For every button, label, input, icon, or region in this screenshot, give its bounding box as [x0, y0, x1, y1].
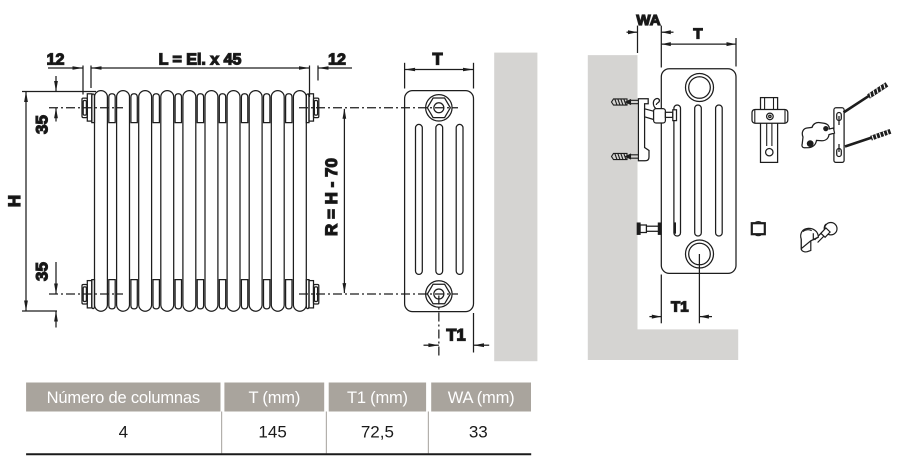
svg-text:T1 (mm): T1 (mm): [347, 389, 408, 407]
side view slots: [416, 124, 464, 274]
svg-text:T (mm): T (mm): [248, 389, 300, 407]
wall anchor bottom (plug + screw): [612, 153, 639, 159]
wall anchor top (plug + screw): [612, 99, 639, 105]
bushing bottom left: [82, 281, 92, 308]
radiator side view body: [405, 91, 474, 312]
svg-text:WA (mm): WA (mm): [448, 389, 515, 407]
bracket arm and clip: [645, 99, 666, 123]
bottom plug circle: [686, 240, 714, 268]
dimension T1 (installation): [649, 254, 712, 323]
radiator front view: column tubes: [95, 91, 307, 312]
screw lower (exploded): [845, 130, 891, 146]
svg-text:12: 12: [47, 52, 65, 69]
lower support pin: [637, 223, 661, 234]
slots (installation side view): [674, 105, 722, 236]
fixing plate (exploded): [834, 108, 844, 163]
svg-text:T: T: [432, 51, 442, 69]
table bottom rule: [26, 453, 531, 455]
svg-text:33: 33: [469, 423, 488, 442]
dimension T (middle): [405, 51, 474, 89]
extension line bottom edge: [22, 310, 57, 312]
svg-text:T1: T1: [671, 299, 689, 316]
svg-text:T1: T1: [446, 327, 465, 345]
radiator side view (installation): [661, 69, 736, 274]
dimension T1 (middle): [424, 296, 490, 358]
svg-text:4: 4: [119, 423, 128, 442]
wall bracket plate: [638, 99, 649, 161]
dimension H: [5, 92, 28, 312]
radiator front view: end half-columns: [92, 94, 309, 309]
bushing top right: [309, 94, 319, 121]
svg-text:R = H - 70: R = H - 70: [322, 158, 341, 236]
wall (installation view, L-shape): [588, 55, 738, 360]
screw upper (exploded): [844, 84, 887, 113]
clamp bracket (exploded, between plate and radiator): [802, 123, 835, 148]
svg-text:H: H: [5, 195, 24, 207]
dimension R = H - 70: [322, 108, 346, 293]
svg-text:WA: WA: [636, 12, 660, 29]
square nut piece: [752, 222, 765, 236]
svg-text:145: 145: [258, 423, 286, 442]
wall (middle section view): [494, 53, 537, 362]
extension line top edge: [22, 91, 96, 93]
svg-text:35: 35: [33, 262, 52, 281]
dimension 12 right: [318, 52, 352, 70]
bushing top left: [82, 94, 92, 121]
radiator front view: back columns in gaps (bottom): [109, 280, 292, 309]
svg-text:Número de columnas: Número de columnas: [47, 389, 200, 407]
table data row: [119, 412, 488, 454]
dimension 12 left: [47, 52, 83, 70]
bracket pin into slot: [665, 110, 676, 121]
dimension 35 bottom: [33, 262, 58, 328]
center axis dash-dot lines: [49, 108, 458, 294]
svg-text:T: T: [693, 26, 702, 43]
extension lines for L and 12 dims: [82, 66, 84, 95]
table header row: [26, 383, 531, 412]
top plug circle: [686, 74, 714, 102]
dimension L = El. x 45: [91, 52, 310, 70]
dimension T (installation): [661, 26, 736, 67]
bushing bottom right: [309, 281, 319, 308]
dimension 35 top: [33, 76, 58, 134]
svg-text:L = El. x 45: L = El. x 45: [159, 52, 242, 69]
svg-text:12: 12: [328, 52, 346, 69]
hex plug bottom: [426, 281, 452, 307]
hex plug top: [426, 95, 452, 121]
svg-text:72,5: 72,5: [361, 423, 394, 442]
radiator front view: back columns in gaps (top): [109, 94, 292, 123]
mounting bracket part (front view, exploded): [752, 98, 788, 163]
svg-text:35: 35: [33, 115, 52, 134]
pin end visible in slot: [674, 222, 676, 233]
dimension WA: [627, 12, 674, 68]
saddle clip with bolt (exploded): [801, 223, 837, 252]
